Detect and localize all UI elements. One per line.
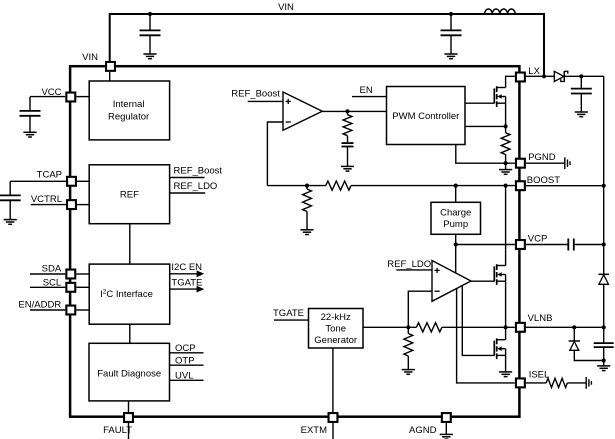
pin SCL [66,283,75,292]
ground below R4 [300,230,313,235]
wire diode to rail [564,75,603,77]
node junction M1 source [504,124,508,128]
wire PWM to source node [465,125,506,127]
ground PGND (rotated) [565,157,570,169]
label I2C Interface [100,289,153,301]
svg-text:PWM Controller: PWM Controller [392,111,459,122]
capacitor C8 (VLNB output) [594,343,614,360]
pin LX [516,73,525,82]
wire EN stub [352,96,387,98]
resistor R4 (divider) [303,186,312,230]
op-amp U1 [283,92,322,130]
net label VIN (top rail) [278,2,294,13]
net label UVL [175,371,193,382]
wire EXTM external [332,423,334,439]
wire LX to diode [526,75,554,77]
wire TGATE input stub [274,319,309,321]
pin label PGND [528,152,556,163]
svg-text:TGATE: TGATE [273,308,304,319]
wire REF_LDO stub [170,192,206,194]
wire U1 output to PWM [322,110,386,112]
wire VIN rail top [110,14,544,76]
transistor M1 (PWM switch) [494,86,505,107]
pin VCP [516,240,525,249]
svg-text:Charge: Charge [440,207,471,218]
pin label VIN [82,52,98,63]
label Tone Generator [314,312,357,346]
capacitor C7 (VCP pump) [568,239,574,251]
wire VLNB line right [442,326,515,328]
node junction R2 PGND [504,161,508,165]
node junction rail VLNB [602,325,606,329]
svg-text:REF_LDO: REF_LDO [174,181,218,192]
wire TGATE arrow [170,288,198,290]
net label TGATE (I2C output) [171,278,202,289]
wire BOOST rail to M2 drain [505,186,507,250]
wire BOOST external [526,185,604,187]
svg-text:VLNB: VLNB [528,313,553,324]
wire I2C to Fault Diagnose [129,324,131,343]
wire VIN pin to regulator [109,72,111,81]
pin label SDA [42,263,62,274]
ground below C2 [444,54,457,59]
svg-text:Regulator: Regulator [108,112,149,123]
node junction rail VCP [602,242,606,246]
svg-text:VCTRL: VCTRL [31,194,62,205]
wire VCC internal [76,96,89,98]
block I2C Interface [89,264,170,324]
wire FAULT external [128,423,130,439]
pin label VCC [41,87,61,98]
op-amp U2 [432,261,471,302]
block Charge Pump [431,202,481,234]
resistor R5 (VLNB series) [416,323,442,332]
IC boundary box [70,66,519,417]
net label REF_Boost (REF output) [174,166,223,177]
wire outer rail upper [603,76,605,274]
pin AGND [442,413,451,422]
wire VLNB external [526,326,604,328]
svg-text:PGND: PGND [528,152,556,163]
wire PWM gate drive [465,102,494,104]
wire Tone Generator to EXTM pin [332,348,334,412]
wire EN/ADDR stub [30,309,65,311]
diode D3 (VLNB clamp, up) [569,327,604,360]
pin label SCL [43,277,61,288]
svg-text:Fault Diagnose: Fault Diagnose [97,369,161,380]
wire SDA internal [76,273,89,275]
net label REF_LDO (U2 + input) [387,259,431,270]
ground below C3 [341,166,354,171]
svg-text:Internal: Internal [113,99,145,110]
pin label AGND [409,425,437,436]
svg-text:Generator: Generator [314,335,357,346]
pin FAULT [124,413,133,422]
label REF [120,190,139,201]
ground below R6 [402,370,415,375]
svg-text:REF_Boost: REF_Boost [174,166,223,177]
pin VLNB [516,323,525,332]
block Internal Regulator [89,81,169,140]
svg-text:Tone: Tone [325,324,346,335]
svg-text:EN: EN [360,85,373,96]
pin SDA [66,270,75,279]
pin BOOST [516,181,525,190]
pin label VLNB [528,313,553,324]
label Internal Regulator [108,99,149,123]
net label OTP [175,356,195,367]
wire PGND external [526,162,565,164]
svg-text:SDA: SDA [42,263,62,274]
node junction top-right cap [449,12,453,16]
wire SDA stub [30,273,65,275]
capacitor C5 (TCAP) [0,181,21,219]
net label I2C EN [171,262,202,273]
pin VIN [106,62,115,71]
wire charge pump to VCP [456,234,515,244]
wire U2 supply from charge pump [455,245,457,273]
wire VCP external right [574,244,604,246]
pin label VCTRL [31,194,62,205]
ground below M3 [499,372,512,377]
node junction VLNB diode [572,325,576,329]
wire VCP external left [526,244,568,246]
wire PWM bottom to PGND [456,145,515,164]
node junction VLNB divider [406,325,410,329]
pin label LX [528,66,540,77]
wire tone gen output [363,326,416,328]
wire M1 source down [505,103,507,126]
wire U2 - input [408,291,432,327]
wire U2 rail to M3 gate [462,286,494,355]
wire OTP stub [170,364,204,366]
block 22-kHz Tone Generator [309,309,364,349]
svg-text:TCAP: TCAP [37,169,62,180]
capacitor C3 (comp) [342,136,354,167]
node junction top-left cap [148,12,152,16]
resistor R1 (comp) [343,111,352,135]
ground below C4 [23,132,36,137]
resistor R2 (current sense) [501,126,510,163]
svg-text:VIN: VIN [82,52,98,63]
svg-text:BOOST: BOOST [527,175,560,186]
capacitor C6 (output) [571,76,592,112]
node junction divider [305,184,309,188]
wire EN/ADDR internal [76,309,89,311]
net label EN [360,85,373,96]
net label REF_LDO (REF output) [174,181,218,192]
wire M3 drain to VLNB [505,327,507,339]
node junction U1 output [345,109,349,113]
svg-text:Pump: Pump [443,219,468,230]
wire feedback line right [351,185,515,187]
wire M2 drain up [505,250,507,266]
pin ISEL [516,378,525,387]
arrow TGATE [197,286,205,293]
wire U2 + input [396,269,432,271]
diode D1 (catch, schottky) [554,71,568,82]
pin label ISEL [529,370,550,381]
resistor R6 (VLNB divider) [404,327,413,369]
label Fault Diagnose [97,369,161,380]
pin label EN/ADDR [18,300,61,311]
ground below C8 [597,366,610,371]
pin VCC [66,93,75,102]
wire M1 drain to LX [506,76,515,87]
wire U2 output to M2 gate [471,280,494,282]
pin TCAP [67,177,76,186]
wire VCTRL internal [77,204,89,206]
ground below C1 [143,54,156,59]
svg-text:REF_LDO: REF_LDO [387,259,431,270]
arrow I2C EN [197,270,205,277]
pin EXTM [329,413,338,422]
ground below C6 [575,112,588,117]
pin label TCAP [37,169,62,180]
wire ISEL external [526,382,546,384]
svg-text:VCP: VCP [528,234,548,245]
wire VCTRL stub [31,204,66,206]
wire TCAP external [10,180,66,182]
inductor L1 [485,9,516,14]
svg-text:ISEL: ISEL [529,370,550,381]
svg-text:I2C Interface: I2C Interface [100,289,153,301]
wire charge pump top stub [455,186,457,203]
resistor R7 (ISEL set) [546,378,567,387]
ground below R2 [499,163,512,174]
ground below AGND [440,434,453,439]
wire OCP stub [170,352,204,354]
block Fault Diagnose [89,343,170,401]
node junction LX ext [542,74,546,78]
node junction VLNB internal [504,325,508,329]
node junction charge pump top [454,184,458,188]
wire I2C EN arrow [170,273,198,275]
pin label EXTM [301,425,327,436]
transistor M3 (LNB lower) [494,338,505,359]
wire REF to I2C [129,224,131,264]
pin EN/ADDR [66,306,75,315]
net label REF_Boost (U1 + input) [231,88,280,99]
wire outer rail lower [603,284,605,343]
node junction VCP rail [454,242,458,246]
wire TCAP internal [77,180,89,182]
wire AGND ground stub [445,423,447,434]
node junction BOOST rail [504,184,508,188]
transistor M2 (LNB pass upper) [494,264,505,285]
wire feedback line left [267,185,325,187]
svg-text:AGND: AGND [409,425,437,436]
node junction C8 bottom [602,358,606,362]
pin label BOOST [527,175,560,186]
node junction output cap [579,74,583,78]
wire VCC external [30,96,65,98]
wire SCL stub [30,286,65,288]
net label OCP [175,343,196,354]
wire U1 + input [248,100,283,102]
label PWM Controller [392,111,459,122]
wire REF_Boost stub [170,177,205,179]
capacitor C4 (VCC bypass) [20,97,41,133]
net label TGATE (tone gen input) [273,308,304,319]
pin PGND [516,159,525,168]
resistor R3 (feedback) [326,181,351,190]
block REF [89,165,169,224]
capacitor C1 (VIN input bypass) [140,14,161,54]
ground below C5 [4,220,17,225]
diode D2 (rail, up) [599,274,610,284]
label Charge Pump [440,207,471,230]
pin label VCP [528,234,548,245]
wire M3 source down [505,355,507,371]
wire UVL stub [170,379,204,381]
svg-text:REF: REF [120,190,139,201]
wire M2 source to VLNB [505,281,507,327]
pin VCTRL [67,200,76,209]
wire ISEL resistor to ground [567,382,586,384]
wire U1 - input feedback [267,122,283,186]
capacitor C2 (LC filter) [441,14,462,54]
node junction rail BOOST [602,184,606,188]
block PWM Controller [387,87,466,145]
svg-text:EXTM: EXTM [301,425,327,436]
svg-text:22-kHz: 22-kHz [321,312,351,323]
pin label FAULT [103,425,132,436]
wire Fault Diagnose to FAULT pin [128,401,130,412]
wire C8 to ground [603,361,605,366]
wire U2 lower rail to ISEL [457,289,515,383]
wire SCL internal [76,286,89,288]
svg-text:REF_Boost: REF_Boost [231,88,280,99]
svg-text:VIN: VIN [278,2,294,13]
ground ISEL (rotated) [586,377,591,389]
svg-text:LX: LX [528,66,540,77]
svg-text:EN/ADDR: EN/ADDR [18,300,61,311]
